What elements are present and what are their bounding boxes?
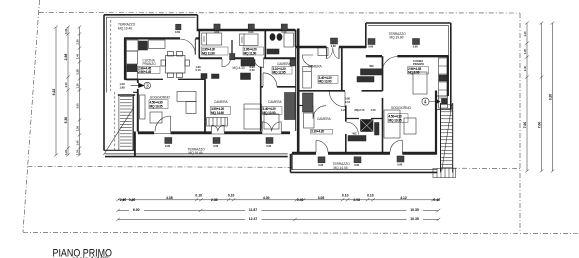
dim row3 xyxy=(116,218,440,221)
svg-text:0.60: 0.60 xyxy=(281,30,287,34)
entry jog wall y=79.3 xyxy=(124,78,138,80)
right apt top wall y=56 xyxy=(366,55,449,57)
wc3 right wall xyxy=(382,119,384,155)
wardrobe camera1 hatched xyxy=(207,118,228,127)
bottom wall camera1 segment xyxy=(224,131,262,134)
svg-text:WC: WC xyxy=(370,64,374,68)
camera E corridor door arc xyxy=(313,106,326,119)
svg-text:CAMERA: CAMERA xyxy=(308,64,323,68)
svg-text:0.90: 0.90 xyxy=(213,144,219,148)
kitchen stove dark xyxy=(127,65,138,72)
svg-text:MQ.4.30: MQ.4.30 xyxy=(233,66,245,70)
svg-text:1.40: 1.40 xyxy=(75,140,79,146)
dim R1 xyxy=(525,22,529,173)
soggiorno terrace door leaf and arc xyxy=(154,116,170,134)
terrace door arc xyxy=(180,39,195,55)
svg-text:PRANZO: PRANZO xyxy=(413,62,424,66)
svg-text:0.60: 0.60 xyxy=(248,30,254,34)
camera E strip door arc xyxy=(316,140,328,152)
wc2 right wall xyxy=(382,56,384,91)
dim L2 xyxy=(66,26,70,157)
wc3 top wall xyxy=(346,118,383,120)
terrace parapet top-left inner xyxy=(106,16,195,18)
svg-text:0.90: 0.90 xyxy=(354,163,360,167)
svg-text:10.35: 10.35 xyxy=(410,217,419,221)
terrace parapet top-left outer xyxy=(104,14,198,16)
right terrace parapet right outer xyxy=(450,23,452,111)
property boundary mid horizontal right xyxy=(452,167,520,169)
svg-text:1.20: 1.20 xyxy=(120,82,126,86)
camera E top wall xyxy=(298,105,313,107)
circled 4 xyxy=(422,98,447,105)
svg-text:9.22: 9.22 xyxy=(52,89,56,96)
svg-text:0.60: 0.60 xyxy=(175,30,181,34)
wardrobe A dark hatch xyxy=(230,54,235,60)
svg-text:10.35: 10.35 xyxy=(410,208,419,212)
bedroom A left wall xyxy=(198,30,200,58)
property boundary bottom xyxy=(23,233,579,234)
kitchen top wall stub right of terrace door xyxy=(196,37,201,39)
kitchen counter right xyxy=(149,40,166,49)
svg-text:0.60: 0.60 xyxy=(331,44,337,48)
svg-text:0.40: 0.40 xyxy=(129,198,136,202)
svg-text:7.00: 7.00 xyxy=(523,122,527,129)
kitchen sink dark xyxy=(139,41,148,50)
camera C bottom wall xyxy=(261,86,296,88)
svg-text:1.40: 1.40 xyxy=(64,82,68,88)
WC top fixtures xyxy=(267,33,294,54)
bed B xyxy=(240,34,259,46)
svg-text:0.90: 0.90 xyxy=(266,144,272,148)
svg-text:MQ.16.46: MQ.16.46 xyxy=(189,151,203,155)
soggiorno top wall xyxy=(139,78,206,80)
right strip parapet bottom inner xyxy=(292,169,437,171)
entry landing lines xyxy=(436,96,451,110)
svg-text:1.00: 1.00 xyxy=(523,48,527,54)
svg-text:0.90: 0.90 xyxy=(397,162,403,166)
right apt right wall lower xyxy=(435,91,437,155)
svg-text:1.20: 1.20 xyxy=(371,108,377,112)
svg-text:5.30: 5.30 xyxy=(64,117,68,124)
right terrace parapet top inner xyxy=(368,24,449,26)
bottom dims row2 labels xyxy=(129,207,144,212)
camera2 french door xyxy=(262,122,281,134)
svg-text:CAMERA: CAMERA xyxy=(214,100,229,104)
svg-text:2.38: 2.38 xyxy=(211,198,218,202)
kitchen R island xyxy=(413,72,427,94)
camera D right wall xyxy=(341,47,343,91)
svg-text:MQ 9.96: MQ 9.96 xyxy=(408,70,420,74)
svg-text:0.90: 0.90 xyxy=(318,163,324,167)
svg-text:4.38: 4.38 xyxy=(166,196,173,200)
parapet step wall x=197.5 xyxy=(197,15,199,30)
svg-text:4.30: 4.30 xyxy=(263,196,270,200)
svg-text:0.90: 0.90 xyxy=(165,144,171,148)
right strip parapet bottom outer xyxy=(291,171,438,173)
corridor top wall y=90.8 xyxy=(298,90,382,92)
svg-text:2.38: 2.38 xyxy=(75,69,79,75)
dark strip fixture xyxy=(375,123,380,136)
camera1/camera2 dividing wall xyxy=(260,87,262,131)
svg-text:MQ.2.70: MQ.2.70 xyxy=(355,108,366,112)
svg-text:MQ.19.40: MQ.19.40 xyxy=(118,26,132,30)
property boundary mid horizontal left xyxy=(28,166,293,169)
soggiornoR left wall upper xyxy=(382,98,384,119)
camera E furniture xyxy=(303,93,315,128)
bedroom A door arc xyxy=(222,58,231,67)
dim row2 xyxy=(116,209,440,212)
svg-text:1.20: 1.20 xyxy=(64,149,68,155)
svg-text:0.45: 0.45 xyxy=(64,28,68,34)
corridor wc wall xyxy=(249,58,251,66)
svg-text:SOGGIORNO: SOGGIORNO xyxy=(150,96,171,100)
property boundary dash-dot left slant xyxy=(23,0,40,232)
svg-text:9.20: 9.20 xyxy=(549,94,553,101)
svg-text:MQ.19.80: MQ.19.80 xyxy=(390,36,404,40)
svg-text:scala 1:100: scala 1:100 xyxy=(72,255,108,258)
svg-text:1.50: 1.50 xyxy=(75,125,79,131)
svg-text:CAMERA: CAMERA xyxy=(268,100,283,104)
dining table xyxy=(161,52,190,78)
camera2 furniture xyxy=(264,93,295,130)
chair left xyxy=(161,60,166,66)
strip parapet bottom outer xyxy=(105,156,288,158)
soggiorno/camera1 dividing wall xyxy=(204,79,206,131)
svg-text:PRANZO: PRANZO xyxy=(143,62,157,66)
stairs bottom wall xyxy=(104,149,135,151)
svg-text:MQ 19.35: MQ 19.35 xyxy=(150,105,163,109)
right terrace parapet right inner xyxy=(448,25,450,96)
sofa sectional xyxy=(177,92,196,102)
svg-text:0.10: 0.10 xyxy=(195,193,202,197)
svg-text:MQ.14.06: MQ.14.06 xyxy=(334,166,348,170)
chairs bottom xyxy=(168,73,174,78)
svg-text:11.87: 11.87 xyxy=(249,208,257,212)
svg-text:0.60: 0.60 xyxy=(368,44,374,48)
svg-text:3.00: 3.00 xyxy=(75,103,79,109)
right apt terrace door leaf+arc xyxy=(382,57,397,72)
svg-text:CAMERA: CAMERA xyxy=(277,62,292,66)
svg-text:MQ 19.35: MQ 19.35 xyxy=(389,119,402,123)
right apt bottom wall xyxy=(292,152,436,155)
kitchen left wall xyxy=(124,38,126,79)
svg-text:0.80: 0.80 xyxy=(345,97,351,101)
stair left edge xyxy=(118,95,120,150)
dim R2 xyxy=(540,22,544,173)
camera C door arc xyxy=(263,73,277,87)
svg-text:0.10: 0.10 xyxy=(196,68,202,72)
bedroom B door arc xyxy=(254,58,264,68)
camera1 furniture xyxy=(207,104,262,129)
wardrobe camera2 hatched dark xyxy=(285,93,296,120)
svg-text:0.10: 0.10 xyxy=(342,193,349,197)
kitchen top wall xyxy=(124,37,180,39)
svg-text:3.05: 3.05 xyxy=(318,196,325,200)
svg-text:2.08: 2.08 xyxy=(353,198,360,202)
svg-text:1.40: 1.40 xyxy=(523,31,527,37)
svg-text:1.40: 1.40 xyxy=(75,53,79,59)
kitchen R cabinets column xyxy=(439,58,448,108)
kitchen top counter xyxy=(127,40,139,51)
stair connector wall xyxy=(133,91,138,93)
left apt right wall / party wall xyxy=(297,29,300,155)
bed camera1 xyxy=(244,104,262,129)
right apt right wall xyxy=(447,56,449,96)
svg-text:1.10: 1.10 xyxy=(75,83,79,89)
stair treads xyxy=(120,96,132,98)
camera E right wall xyxy=(345,106,347,155)
property boundary top xyxy=(39,12,520,14)
strip left edge xyxy=(134,132,136,157)
right strip left edge xyxy=(291,153,293,170)
bedroom A/B dividing wall xyxy=(231,40,233,58)
svg-text:1.20: 1.20 xyxy=(341,108,347,112)
party step vertical x=295.5 xyxy=(295,30,297,47)
soggiorno R strip door arc xyxy=(390,140,402,152)
stairs diagonal xyxy=(104,107,135,155)
svg-text:7.00: 7.00 xyxy=(538,122,542,129)
bottom dims row1 labels xyxy=(120,193,440,221)
camera1 french door xyxy=(212,125,224,134)
svg-text:2.30: 2.30 xyxy=(75,39,79,45)
stair right wall xyxy=(132,95,134,150)
bedroom B/WC dividing wall xyxy=(264,30,266,58)
dim R3 xyxy=(551,22,555,173)
svg-text:1.40: 1.40 xyxy=(523,65,527,71)
double door arcs xyxy=(327,48,340,59)
svg-text:0.10: 0.10 xyxy=(367,193,374,197)
svg-text:0.40: 0.40 xyxy=(297,198,304,202)
bed A xyxy=(202,33,222,45)
svg-text:0.40: 0.40 xyxy=(433,198,440,202)
chairs top xyxy=(168,52,174,57)
right terrace parapet top outer xyxy=(366,22,451,24)
svg-text:2.50: 2.50 xyxy=(120,198,127,202)
chair right xyxy=(185,60,190,66)
stairs diagonal right xyxy=(442,105,452,171)
svg-text:4: 4 xyxy=(424,100,427,106)
terrace parapet left outer xyxy=(103,15,105,151)
dim L3 xyxy=(78,26,82,157)
armchair xyxy=(150,112,162,123)
svg-text:3: 3 xyxy=(146,83,149,89)
svg-text:1.98: 1.98 xyxy=(120,86,126,90)
tv unit xyxy=(140,95,146,119)
WC2 fixtures xyxy=(361,69,382,75)
WC3 shower dark xyxy=(361,120,374,132)
terrace walkway dashed edge xyxy=(110,20,112,91)
svg-text:6.00: 6.00 xyxy=(133,208,140,212)
soggiorno R furniture xyxy=(384,58,448,138)
kitchen left column counters xyxy=(127,51,138,64)
building top wall y=30 xyxy=(197,29,296,31)
svg-text:0.10: 0.10 xyxy=(228,193,235,197)
stairs lower flight xyxy=(433,168,456,177)
bottom dims row3 labels xyxy=(245,216,262,221)
corridor fixtures dark xyxy=(241,60,255,67)
camera D furniture (right apt) xyxy=(303,48,328,89)
bottom wall camera2 segment xyxy=(281,131,290,134)
terrace parapet left inner xyxy=(105,17,107,92)
svg-text:2.98: 2.98 xyxy=(64,54,68,61)
svg-text:WC: WC xyxy=(353,132,357,136)
dim row1 xyxy=(118,199,439,201)
step wall between blocks xyxy=(290,154,292,173)
svg-text:1.20: 1.20 xyxy=(75,149,79,155)
svg-text:3.10+4.20: 3.10+4.20 xyxy=(311,130,324,134)
svg-text:4.12: 4.12 xyxy=(400,196,407,200)
svg-text:2.10: 2.10 xyxy=(345,100,351,104)
double door leaves top wall xyxy=(327,47,340,58)
stair top wall xyxy=(118,94,135,96)
strip parapet bottom inner xyxy=(105,153,288,155)
svg-text:CAMERA: CAMERA xyxy=(317,117,332,121)
svg-text:MQ 13.90: MQ 13.90 xyxy=(319,80,332,84)
soggiorno bottom wall xyxy=(138,131,154,134)
circled 3 xyxy=(131,82,151,89)
svg-text:0.60: 0.60 xyxy=(214,30,220,34)
dim L1 xyxy=(54,26,58,157)
svg-text:0.60: 0.60 xyxy=(413,44,419,48)
right block top wall y=47 xyxy=(296,46,367,48)
vent markers bottom strips xyxy=(165,138,404,163)
camera D door arc xyxy=(302,55,313,66)
terrace door leaf xyxy=(194,39,196,55)
svg-text:2.20: 2.20 xyxy=(250,68,256,72)
wc3 fixtures xyxy=(348,136,366,142)
soggiorno left wall xyxy=(137,93,139,132)
bedrooms bottom wall y=58.2 xyxy=(199,57,295,59)
right terrace left wall xyxy=(365,23,367,48)
camera C left wall xyxy=(260,67,262,87)
property boundary right vertical xyxy=(519,13,521,233)
kitchen counter low xyxy=(127,72,138,81)
apartment left wall with entry opening xyxy=(137,79,139,92)
svg-text:12.47: 12.47 xyxy=(249,217,258,221)
svg-text:SOGGIORNO: SOGGIORNO xyxy=(391,106,412,110)
bottom wall mid segment xyxy=(171,131,212,134)
corridor big door arc xyxy=(329,91,345,107)
bedroom B furniture xyxy=(240,34,259,46)
